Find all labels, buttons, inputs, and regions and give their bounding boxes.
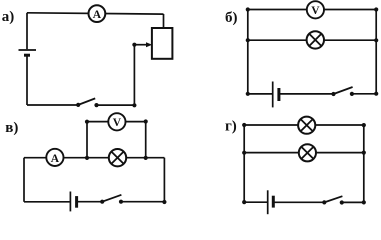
battery GB2 short plate <box>277 88 280 101</box>
node b top-right <box>374 7 378 11</box>
battery GB2 long plate <box>272 82 274 108</box>
switch S1 right contact <box>94 103 98 107</box>
wire: circuit a left vertical lower <box>26 57 28 106</box>
svg-text:A: A <box>93 9 102 21</box>
voltmeter PV2 <box>108 113 125 130</box>
wire: circuit b left vertical <box>247 10 249 94</box>
node: bottom junction <box>132 103 136 107</box>
battery GB3 long plate <box>69 192 71 212</box>
wire: circuit v bottom right <box>121 201 164 203</box>
wire: circuit b bottom right <box>352 93 376 95</box>
wire: circuit g bottom left <box>244 201 267 203</box>
node g top-left <box>242 123 246 127</box>
switch S2 right contact <box>350 92 354 96</box>
switch S4 left contact <box>322 200 326 204</box>
svg-text:б): б) <box>225 10 238 26</box>
wire: circuit g right vertical <box>363 125 365 202</box>
switch S4 lever <box>324 196 342 202</box>
battery GB3 short plate <box>75 196 78 208</box>
wire: circuit a bottom left <box>27 104 78 106</box>
wire: circuit b bottom middle <box>280 93 334 95</box>
wire: circuit a right vertical <box>163 14 165 29</box>
svg-text:V: V <box>113 117 122 129</box>
wire: circuit g bottom right <box>342 201 364 203</box>
wire: circuit v middle <box>24 157 164 159</box>
wire: circuit v voltmeter branch <box>87 122 146 158</box>
wire: circuit b bottom left <box>248 93 272 95</box>
node v mid-left <box>85 156 89 160</box>
node b bottom-left <box>246 92 250 96</box>
battery GB4 short plate <box>272 196 275 208</box>
svg-text:V: V <box>311 5 320 17</box>
wire: circuit g left vertical <box>243 125 245 202</box>
node v mid-right <box>144 156 148 160</box>
wire: circuit v bottom middle <box>77 201 102 203</box>
node g mid-right <box>362 151 366 155</box>
node: slider junction <box>132 43 136 47</box>
svg-text:г): г) <box>225 118 237 134</box>
wire: circuit g bottom middle <box>274 201 324 203</box>
switch S3 lever <box>102 195 121 202</box>
switch S1 lever <box>78 98 95 105</box>
node b mid-right <box>374 38 378 42</box>
ammeter PA1 <box>89 5 106 22</box>
lamp EL4 <box>299 144 316 161</box>
battery GB1 long plate <box>19 49 37 51</box>
svg-text:а): а) <box>2 9 15 25</box>
wire: circuit b top <box>248 9 376 11</box>
wire: circuit a bottom right <box>97 104 135 106</box>
lamp EL2 <box>109 149 126 166</box>
voltmeter PV1 <box>307 1 324 18</box>
wire: circuit b middle <box>248 39 376 41</box>
wire: circuit v left vertical <box>23 158 25 202</box>
rheostat R1 slider arrow <box>134 42 152 47</box>
wire: circuit b right vertical <box>375 10 377 94</box>
wire: circuit v bottom left <box>24 201 70 203</box>
switch S2 left contact <box>331 92 335 96</box>
svg-text:в): в) <box>5 120 18 136</box>
battery GB1 short plate <box>24 54 30 57</box>
svg-text:A: A <box>51 153 60 165</box>
wire: circuit v right vertical <box>163 158 165 202</box>
switch S3 right contact <box>119 200 123 204</box>
wire: circuit a top <box>27 13 164 14</box>
wire: circuit a middle vertical <box>133 45 135 106</box>
node g top-right <box>362 123 366 127</box>
node v bottom-right <box>162 200 166 204</box>
lamp EL1 <box>307 31 324 48</box>
node v branch top-right <box>144 119 148 123</box>
switch S3 left contact <box>100 200 104 204</box>
wire: circuit g top <box>244 124 364 126</box>
ammeter PA2 <box>46 149 63 166</box>
rheostat R1 body <box>152 28 173 59</box>
battery GB4 long plate <box>267 190 269 214</box>
node g bottom-left <box>242 200 246 204</box>
wire: circuit g middle <box>244 152 364 154</box>
node b mid-left <box>246 38 250 42</box>
node b top-left <box>246 7 250 11</box>
node g mid-left <box>242 151 246 155</box>
switch S2 lever <box>334 87 353 94</box>
wire: circuit a left vertical upper <box>26 13 28 49</box>
switch S4 right contact <box>340 200 344 204</box>
node g bottom-right <box>362 200 366 204</box>
node v branch top-left <box>85 120 89 124</box>
switch S1 left contact <box>76 103 80 107</box>
lamp EL3 <box>298 117 315 134</box>
node b bottom-right <box>374 92 378 96</box>
